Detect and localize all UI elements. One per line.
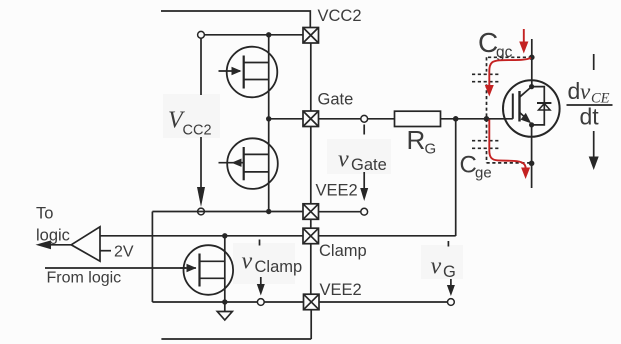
- svg-text:Gate: Gate: [351, 156, 387, 174]
- wire left VEE2 bus: [151, 212, 153, 303]
- diode branch: [532, 87, 545, 125]
- junction dot M3 drain: [222, 233, 227, 238]
- svg-text:ge: ge: [475, 165, 492, 182]
- svg-text:To: To: [36, 205, 53, 223]
- junction dot gate/parasitic node: [484, 116, 490, 122]
- svg-text:VCC2: VCC2: [318, 7, 362, 25]
- voltage label vGate: [338, 125, 387, 202]
- gate bar: [512, 94, 514, 119]
- voltage label vClamp: [242, 240, 303, 296]
- wire From logic: [45, 267, 186, 269]
- wire VEE2 line: [152, 211, 303, 213]
- junction dot gate/clamp node: [453, 116, 459, 122]
- svg-text:v: v: [431, 254, 442, 280]
- svg-text:v: v: [242, 249, 253, 275]
- internal junction dots: [529, 84, 534, 89]
- svg-text:gc: gc: [496, 44, 513, 61]
- svg-text:Clamp: Clamp: [319, 242, 367, 260]
- wire VEE2 stub right: [319, 211, 361, 213]
- transistor M1 upper driver MOSFET: [219, 47, 278, 98]
- svg-text:G: G: [443, 263, 456, 281]
- red current path arrow into collector: [519, 29, 528, 54]
- svg-text:d: d: [568, 78, 581, 104]
- svg-text:CC2: CC2: [183, 123, 212, 139]
- ground: [217, 302, 232, 320]
- wire clamp line right: [319, 235, 456, 237]
- label background plates: [163, 94, 463, 284]
- svg-text:Gate: Gate: [318, 91, 354, 109]
- label To logic: [36, 205, 70, 245]
- pin box Clamp: [303, 228, 319, 244]
- junction dot collector/Cgc: [529, 55, 535, 61]
- label Cgc: [478, 27, 513, 61]
- junction dot M2 source: [266, 209, 271, 214]
- svg-text:From logic: From logic: [47, 270, 122, 287]
- wire VEE2 bottom line: [152, 301, 303, 303]
- wire VCC2 node: [201, 34, 303, 36]
- wire driver output to Gate pin: [269, 118, 303, 120]
- wire resistor to IGBT gate: [441, 118, 513, 120]
- svg-text:logic: logic: [36, 227, 70, 245]
- svg-text:VEE2: VEE2: [316, 182, 358, 200]
- junction dot emitter/Cge: [529, 161, 535, 167]
- label dvCE/dt with arrow: [567, 54, 613, 170]
- svg-text:Clamp: Clamp: [255, 258, 303, 276]
- terminal VCC2 (open circle): [198, 31, 205, 38]
- pin box VCC2: [303, 28, 319, 44]
- transistor M2 lower driver MOSFET: [219, 138, 278, 189]
- wire Gate pin to resistor: [319, 118, 395, 120]
- red current path through Cgc: [485, 58, 531, 97]
- svg-text:R: R: [407, 125, 426, 155]
- svg-text:VEE2: VEE2: [320, 281, 362, 299]
- svg-text:G: G: [425, 141, 437, 158]
- wire comparator input / clamp line left: [100, 235, 303, 237]
- terminal vGate target (open circle): [361, 208, 368, 215]
- terminal vGate (open circle): [361, 115, 368, 122]
- terminal vClamp target (open circle): [257, 299, 264, 306]
- wire bottom return rail: [161, 338, 311, 340]
- wire M1 drain-source vertical: [268, 35, 270, 119]
- svg-text:v: v: [338, 147, 349, 173]
- voltage label VCC2 measurement: [168, 39, 212, 208]
- svg-text:dt: dt: [580, 104, 600, 130]
- red current path through Cge: [489, 120, 530, 180]
- svg-text:v: v: [580, 79, 591, 104]
- wire collector: [531, 39, 533, 87]
- wire M3 drain-source vertical: [224, 236, 226, 302]
- label Cge: [460, 152, 492, 182]
- junction dot VCC2/drain: [266, 32, 271, 37]
- wire VEE2 bottom right to vG terminal: [319, 301, 448, 303]
- comparator U1 to-logic buffer: [36, 227, 112, 261]
- pin box VEE2: [303, 204, 319, 220]
- svg-text:2V: 2V: [114, 244, 134, 261]
- capacitor Cgc parasitic (dashed): [472, 57, 532, 119]
- collector diagonal: [520, 87, 532, 98]
- wire emitter: [531, 125, 533, 188]
- diode D1: [537, 102, 551, 104]
- pin box VEE2 bottom: [304, 294, 320, 310]
- voltage label vG: [431, 241, 456, 296]
- pin column vertical wires: [310, 43, 312, 339]
- junction dot driver output: [266, 116, 271, 121]
- transistor M3 Miller clamp MOSFET: [180, 245, 233, 295]
- IGBT Q1: [503, 80, 560, 137]
- terminal vG target (open circle): [448, 299, 455, 306]
- pin box Gate: [303, 111, 319, 127]
- junction dot M3 source: [222, 299, 227, 304]
- wire clamp vertical (gate to clamp pin): [455, 119, 457, 236]
- channel bar: [518, 91, 520, 122]
- terminal VEE2 left (open circle): [198, 208, 205, 215]
- label RG: [407, 125, 437, 158]
- capacitor Cge parasitic (dashed): [472, 119, 532, 163]
- resistor RG: [395, 111, 441, 126]
- emitter diagonal with arrow: [520, 112, 525, 116]
- wire VCC2 top rail: [161, 11, 310, 28]
- wire M2 source to VEE2 line: [268, 119, 270, 212]
